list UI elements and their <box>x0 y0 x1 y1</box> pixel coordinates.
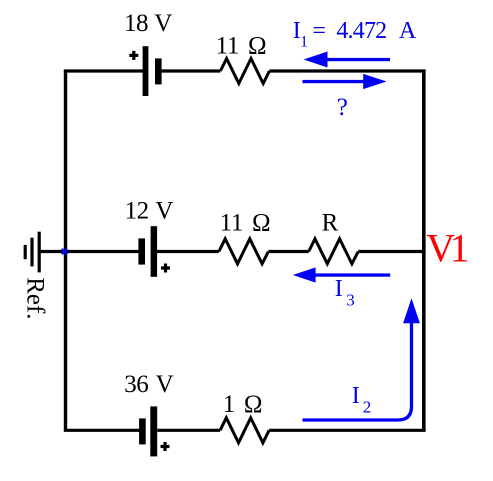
arrow I2 head <box>403 298 420 323</box>
wire: left vertical rail <box>64 71 67 431</box>
svg-text:11 Ω: 11 Ω <box>220 210 271 237</box>
svg-text:18 V: 18 V <box>124 10 172 37</box>
wire: ground to junction <box>39 250 65 253</box>
battery B1 plus sign <box>129 51 138 60</box>
svg-text:1 Ω: 1 Ω <box>223 391 262 418</box>
ground symbol line short <box>24 245 27 259</box>
battery B1 18V long plate <box>143 46 149 96</box>
battery B1 18V short plate <box>155 58 162 84</box>
battery B2 12V long plate <box>151 226 158 277</box>
wire: bottom branch resistor to right rail <box>269 429 426 432</box>
battery B3 plus sign <box>161 442 170 451</box>
ground symbol line middle <box>30 238 33 267</box>
wire: middle branch between resistors <box>268 250 308 253</box>
resistor R zigzag <box>309 239 359 264</box>
battery B2 12V short plate <box>138 238 145 264</box>
ground symbol line long <box>38 232 41 273</box>
resistor 1ohm zigzag <box>220 418 269 443</box>
wire: top branch left segment <box>64 69 144 72</box>
svg-text:V1: V1 <box>426 226 467 271</box>
svg-text:11 Ω: 11 Ω <box>216 32 267 59</box>
svg-text:R: R <box>322 210 339 237</box>
node junction marker (blue X) <box>62 249 67 254</box>
wire: top branch resistor to right rail <box>269 69 425 72</box>
wire: middle branch resistor R to right rail <box>358 250 425 253</box>
svg-text:Ref.: Ref. <box>21 277 48 319</box>
arrow I3 (pointing left, below middle wire) <box>293 267 390 282</box>
wire: bottom branch left segment <box>64 429 140 432</box>
arrow I2 (curved, up along right rail) <box>303 321 412 420</box>
resistor 11ohm top zigzag <box>220 59 269 84</box>
svg-text:12 V: 12 V <box>125 198 174 225</box>
wire: bottom branch battery to resistor <box>157 429 220 432</box>
battery B3 36V short plate <box>139 418 146 444</box>
svg-text:?: ? <box>337 94 348 121</box>
wire: right vertical rail <box>422 70 426 432</box>
wire: middle branch left segment <box>66 250 140 253</box>
battery B2 plus sign <box>161 264 170 273</box>
svg-text:36 V: 36 V <box>124 371 173 398</box>
wire: top branch battery to resistor <box>162 69 221 72</box>
battery B3 36V long plate <box>150 406 157 456</box>
arrow I1 (pointing left, above top wire) <box>304 52 391 68</box>
resistor 11ohm middle zigzag <box>219 239 269 264</box>
wire: middle branch battery to resistor <box>157 250 219 253</box>
arrow ? (pointing right, below top wire) <box>303 74 387 89</box>
